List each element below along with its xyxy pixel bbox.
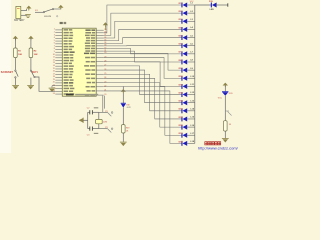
capacitor C2: [87, 107, 99, 114]
wire U1 pin to LED L6: [104, 45, 182, 47]
wire to switch S1: [35, 11, 43, 13]
wire crystal common: [87, 112, 89, 128]
power VCC at battery: [26, 6, 31, 11]
power VCC on zener chain: [121, 89, 126, 93]
wire bus to LED D19: [195, 4, 211, 6]
svg-text:BATTERY: BATTERY: [14, 19, 25, 22]
IC U1 body: [62, 28, 96, 96]
svg-text:VCC: VCC: [218, 98, 223, 100]
IC U1 right pin labels: [84, 29, 95, 95]
wire LED L7 to bus: [187, 52, 195, 54]
svg-text:2: 2: [54, 32, 55, 34]
LED L5: [179, 35, 188, 40]
LED L2: [179, 11, 188, 16]
LED L3: [179, 19, 188, 24]
LED L8: [179, 60, 188, 65]
wire LED L1 to bus: [187, 3, 195, 5]
ground at R19: [120, 142, 127, 146]
ground at battery: [25, 15, 31, 18]
watermark URL: [198, 146, 239, 151]
wire LED L5 to bus: [187, 35, 195, 37]
LED L1: [179, 3, 188, 8]
svg-text:4: 4: [54, 37, 55, 39]
battery BT1: [14, 6, 25, 22]
IC U1 left pin labels: [64, 29, 75, 95]
wire LED L4 to bus: [187, 26, 195, 29]
svg-text:3: 3: [54, 34, 55, 36]
wire R19 to ground: [122, 133, 124, 142]
LED L18: [179, 141, 188, 146]
wire XTAL1 net: [99, 96, 108, 113]
wire battery plus pin: [21, 9, 27, 11]
switch S4: [105, 111, 113, 116]
wire LED L9 to bus: [187, 68, 195, 70]
power VCC right chain: [223, 83, 228, 92]
svg-text:10K: 10K: [18, 54, 22, 56]
svg-text:16: 16: [53, 71, 55, 73]
svg-text:6: 6: [54, 43, 55, 45]
svg-text:18: 18: [53, 76, 55, 78]
LED L14: [179, 108, 188, 114]
wire U1 pin to LED L16: [104, 83, 182, 128]
power VCC at IC pin 40: [103, 22, 108, 30]
watermark red text: [205, 142, 221, 145]
wire S3 to ground: [30, 78, 32, 86]
wire LED L12 to bus: [187, 92, 195, 94]
wire R20 to ground: [224, 131, 226, 138]
wire LED L16 to bus: [187, 125, 195, 127]
wire LED L15 to bus: [187, 117, 195, 119]
switch S1: [43, 8, 58, 18]
svg-text:http://www.cndzz.com/: http://www.cndzz.com/: [198, 146, 239, 151]
wire LED L2 to bus: [187, 11, 195, 13]
svg-text:5: 5: [54, 40, 55, 42]
power VCC at R1: [13, 36, 18, 48]
switch S1 label: [35, 10, 38, 12]
wire XTAL2 net: [99, 96, 108, 129]
wire U1 pin to LED L5: [104, 38, 182, 44]
svg-text:12M: 12M: [103, 122, 107, 124]
svg-text:14: 14: [53, 65, 55, 67]
resistor R20: [224, 121, 232, 131]
LED D19: [209, 1, 217, 11]
svg-text:9: 9: [54, 51, 55, 53]
capacitor C3: [87, 127, 99, 137]
wire R2 to switch: [30, 58, 32, 70]
wire U1 pin to LED L8: [104, 51, 182, 62]
wire S2 to ground: [14, 78, 16, 85]
svg-text:15: 15: [53, 68, 55, 70]
wire S3 to IC RST: [35, 77, 55, 91]
wire LED L18 to bus: [187, 141, 195, 143]
wire LED L17 to bus: [187, 133, 195, 135]
svg-text:SW-PB: SW-PB: [44, 16, 52, 18]
wire LED L13 to bus: [187, 100, 195, 102]
wire U1 pin to LED L2: [104, 13, 182, 35]
wire U1 pin to LED L1: [104, 5, 182, 33]
svg-text:17: 17: [53, 73, 55, 75]
wire LED D19 to terminal: [216, 3, 228, 6]
wire U1 pin to LED L4: [104, 29, 182, 40]
svg-text:S2 RESET: S2 RESET: [1, 71, 14, 74]
power VCC at switch S1: [54, 5, 64, 9]
wire LED L8 to bus: [187, 60, 195, 62]
svg-text:11: 11: [53, 57, 55, 59]
resistor R19: [122, 125, 130, 133]
wire tap to zener DW: [122, 86, 124, 103]
LED L10: [179, 76, 188, 81]
IC U1 left pin stubs: [55, 30, 62, 94]
IC U1 right pin stubs: [96, 30, 104, 95]
wire U1 pin to LED L12: [104, 66, 182, 95]
LED L11: [179, 84, 188, 89]
zener diode DW: [121, 103, 132, 109]
LED L12: [179, 92, 188, 97]
svg-text:P3: P3: [105, 127, 107, 129]
power VCC at R2: [28, 36, 33, 48]
switch S5: [105, 127, 113, 132]
svg-text:LED: LED: [210, 9, 215, 11]
switch S2: [1, 70, 18, 78]
wire LED L10 to bus: [187, 76, 195, 78]
svg-text:8: 8: [54, 48, 55, 50]
svg-text:10: 10: [53, 54, 55, 56]
LED L4: [179, 26, 188, 32]
LED L15: [179, 117, 188, 122]
wire U1 pin to LED L3: [104, 21, 182, 38]
svg-text:19: 19: [53, 79, 55, 81]
svg-text:R19: R19: [126, 128, 129, 130]
crystal Y1: [96, 112, 108, 128]
wire LED L3 to bus: [187, 19, 195, 21]
diode D20: [222, 91, 233, 96]
LED L6: [179, 43, 188, 48]
switch S3: [30, 70, 38, 78]
svg-text:12: 12: [53, 59, 55, 61]
svg-text:P3: P3: [105, 111, 107, 113]
wire U1 pin to LED L13: [104, 70, 182, 103]
wire battery minus pin: [21, 14, 27, 16]
svg-text:24: 24: [53, 93, 55, 95]
ground at S2: [12, 85, 19, 89]
node VCC label at bus top: [190, 1, 195, 3]
wire U1 pin to LED L18: [104, 91, 182, 143]
svg-text:13: 13: [53, 62, 55, 64]
wire LED L11 to bus: [187, 84, 195, 86]
ground at IC pin 20: [49, 86, 56, 92]
node VCC label right chain: [218, 98, 223, 100]
IC U1 left pin numbers: [53, 29, 55, 95]
svg-text:20: 20: [53, 82, 55, 84]
svg-text:7: 7: [54, 45, 55, 47]
LED L9: [179, 68, 188, 73]
LED L13: [179, 100, 188, 105]
wire U1 pin to LED L9: [104, 53, 182, 70]
LED L7: [179, 51, 188, 56]
wire U1 pin to LED L17: [104, 87, 182, 135]
IC U1 AT89C51 title band: [60, 22, 67, 24]
wire LED L6 to bus: [187, 43, 195, 45]
IC U1 bottom-left GND label: [66, 94, 98, 96]
ground at S3: [27, 85, 34, 89]
wire U1 pin to LED L15: [104, 78, 182, 119]
wire D20 to R20: [225, 96, 232, 121]
resistor R1: [14, 48, 23, 58]
wire zener to R19: [122, 108, 124, 125]
wire LED L14 to bus: [187, 108, 195, 111]
IC U1 right pin numbers: [104, 29, 106, 96]
ground at R20: [222, 139, 229, 143]
svg-text:1: 1: [54, 29, 55, 31]
wire LED anode bus: [194, 5, 196, 143]
wire U1 pin to LED L10: [104, 58, 182, 79]
LED L16: [179, 125, 188, 130]
ground arrow left of crystal: [79, 118, 88, 123]
wire R1 to switch: [14, 58, 16, 70]
svg-text:10K: 10K: [34, 54, 38, 56]
wire U1 pin to LED L11: [104, 62, 182, 87]
resistor R2: [29, 48, 38, 58]
wire U1 pin to LED L14: [104, 74, 182, 111]
wire U1 pin to LED L7: [104, 48, 182, 53]
LED L17: [179, 133, 188, 138]
